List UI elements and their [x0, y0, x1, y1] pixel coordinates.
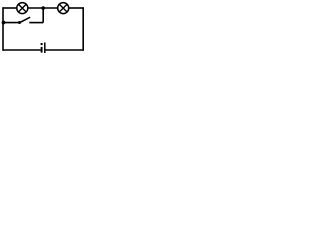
wire switch branch right — [29, 22, 43, 24]
wire left vertical — [2, 7, 4, 51]
wire vertical drop to switch branch — [42, 8, 44, 23]
battery negative short plate — [41, 47, 43, 53]
wire bottom-right segment — [46, 49, 84, 51]
wire top-left segment — [3, 7, 16, 9]
lamp L2 — [58, 3, 69, 14]
wire lamp L1 to lamp L2 — [28, 7, 57, 9]
lamp L1 — [17, 3, 28, 14]
wire bottom-left segment — [3, 49, 41, 51]
node junction left — [2, 21, 6, 25]
wire switch branch left — [3, 22, 19, 24]
wire right vertical — [82, 7, 84, 51]
battery positive long plate — [44, 43, 46, 54]
switch S1 pivot contact — [18, 21, 21, 24]
switch S1 blade (open) — [20, 17, 31, 23]
wire top-right segment — [69, 7, 83, 9]
node junction top — [41, 6, 45, 10]
battery minus mark — [41, 43, 43, 45]
